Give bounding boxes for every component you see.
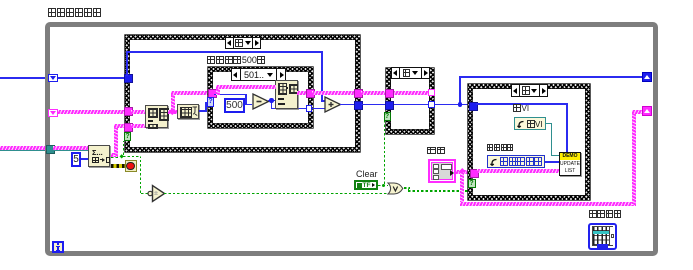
wire: pink+teal from entry tunnel to sigma VI xyxy=(53,146,88,150)
numeric constant 500 xyxy=(224,98,245,113)
tunnel: pink lower on case1 left border xyxy=(124,123,133,132)
wire: pink cluster-array entering loop at left xyxy=(0,146,46,150)
tunnel: blue case2b left (filled) xyxy=(385,101,394,110)
listbox tiny label xyxy=(597,244,608,249)
wire: blue 5 to sigma xyxy=(81,158,88,160)
wire: blue inside case2 from ? to subtract xyxy=(214,94,247,96)
wire: pink inside case2b xyxy=(392,91,428,95)
wire: olive error from sigma to stop icon xyxy=(111,164,125,168)
label: 报文显示 (bottom right) xyxy=(589,210,621,218)
control terminal: 报文 cluster xyxy=(428,159,456,183)
label: 报文显示 (case3) xyxy=(487,144,513,151)
node: array size icon B xyxy=(177,104,199,119)
wire: blue numeric into loop from left edge xyxy=(0,77,48,79)
junction: green dot xyxy=(382,184,386,188)
tunnel: pink upper on case1 left border xyxy=(124,107,133,116)
teal row inside listbox xyxy=(593,231,609,234)
wire: green dashed stub into NOT xyxy=(141,193,149,194)
wire: blue inside case2b xyxy=(392,104,428,106)
junction: green diamond xyxy=(119,154,124,159)
wire: blue inside case1 up and across top xyxy=(126,52,128,76)
case1 selector label 假 xyxy=(225,37,261,49)
shift register left blue (down arrow) xyxy=(48,74,58,82)
shift register right blue (up arrow) xyxy=(642,72,652,82)
tunnel: blue on case1 left border xyxy=(124,74,133,83)
wire: pink tunnel1 to icon A upper input xyxy=(131,110,145,114)
tunnel: blue on case1 right border xyxy=(354,101,364,110)
case2b selector label 假 xyxy=(391,67,430,79)
wire: pink icon A out to icon B with branch up to inner case xyxy=(168,110,177,114)
wire: pink case2 to case1 right tunnel xyxy=(312,91,354,95)
iteration terminal i xyxy=(52,241,64,253)
case structure 2 border (inner 501.. case) xyxy=(208,67,313,128)
wire: blue 500 to subtract xyxy=(245,104,252,106)
label: Clear xyxy=(356,169,378,179)
listbox scrollbar column xyxy=(609,227,614,245)
wire: pink down, along bottom, up to right SR xyxy=(460,172,464,204)
wire: pink sigma out to lower tunnel (up-over) xyxy=(111,153,118,157)
tunnel: teal input tunnel on loop left border xyxy=(46,145,55,154)
node: delete from array icon C xyxy=(275,80,298,109)
label: loop title 报文刷新模块 xyxy=(48,8,101,17)
node: NOT (triangle with input bubble) xyxy=(147,184,167,203)
VI reference constant 本VI xyxy=(514,117,546,130)
wire: blue array size to ? selector xyxy=(199,110,206,112)
tunnel: pink case3 left (filled) xyxy=(470,169,480,179)
node: subtract xyxy=(252,93,270,110)
tunnel: pink case2b left (filled) xyxy=(385,89,394,98)
wire: blue case2 to add node xyxy=(312,108,326,110)
wire: green dashed OR out to case3 ? xyxy=(404,187,410,188)
case1 selector terminal ? (green) xyxy=(124,132,131,141)
control reference: 多列列表框 xyxy=(487,155,545,168)
wire: green dashed long run to OR gate xyxy=(164,193,387,194)
wire: pink case2 tunnel to icon C (up and over) xyxy=(216,85,220,95)
wire: green dashed right then down to NOT node xyxy=(123,156,141,157)
wire: blue add out to case1 right tunnel xyxy=(340,104,354,106)
wire: teal string under pink entry wire xyxy=(0,150,46,152)
case structure 1 border (outer 假 case) xyxy=(125,35,360,152)
tunnel: pink on case2 right border (filled) xyxy=(306,89,315,98)
boolean stop (red round button) xyxy=(125,160,137,172)
case3 selector terminal ? (green) xyxy=(468,179,476,188)
wire: green dashed from case2b ? down to OR junction xyxy=(384,121,385,184)
wire: pink tunnel to DEMO xyxy=(477,169,559,173)
shift register left pink (down arrow) xyxy=(48,109,58,117)
junction: blue dot on wire xyxy=(458,102,462,106)
label: 最多保存500帧 above inner case xyxy=(207,55,265,65)
wire: blue top run to right SR xyxy=(459,76,642,78)
while loop border xyxy=(45,22,658,256)
wire: green dashed up to case1 ? xyxy=(123,141,124,155)
junction: pink diamond after icon A xyxy=(169,108,175,114)
boolean terminal TF (Clear) xyxy=(354,180,378,190)
tunnel: blue case2b right (hollow) xyxy=(428,101,435,108)
wire: blue inside case3 to DEMO top xyxy=(476,103,568,105)
array icon A (build/replace array) xyxy=(145,105,168,128)
case3 selector label 真 xyxy=(511,84,548,97)
wire: blue case2b to case3 with junction to top SR run xyxy=(434,104,470,106)
tunnel: pink on case2 left border xyxy=(208,89,217,98)
junction: pink diamond at 报文 xyxy=(459,168,465,174)
wire: pink from left pink SR to case1 tunnel xyxy=(58,110,124,114)
wire: pink tunnel2 to icon A lower input xyxy=(131,124,145,128)
wire: blue case1 to case2b xyxy=(361,104,386,106)
wire: blue from left SR to case1 tunnel xyxy=(58,77,124,79)
wire: teal 本VI ref to DEMO xyxy=(546,123,552,125)
wire: blue ref to DEMO xyxy=(545,161,559,163)
case structure 3 border (真 case) xyxy=(468,84,590,200)
tunnel: pink on case1 right border xyxy=(354,89,364,98)
junction: blue dot after subtract xyxy=(269,98,273,102)
shift register right pink (up arrow) xyxy=(642,106,652,116)
tunnel: pink case2b right (hollow) xyxy=(428,89,435,96)
wire: green dashed TF to OR xyxy=(378,185,388,186)
wire: pink icon C out to right tunnel xyxy=(297,91,306,95)
subVI: DEMO UPDATE LIST xyxy=(559,152,581,176)
numeric constant 5 xyxy=(71,152,81,167)
wire: blue subtract out, branch to icon C and tunnel xyxy=(268,100,275,102)
case2b selector terminal ? (green) xyxy=(384,112,391,121)
subVI sigma (parse frame VI) xyxy=(88,145,110,167)
wire: pink 报文 to case3 tunnel xyxy=(456,170,470,174)
tunnel: blue on case2 right border (hollow) xyxy=(306,105,313,112)
case2 selector label 501.. xyxy=(231,68,286,81)
indicator terminal: multicolumn listbox 报文显示 xyxy=(588,223,617,250)
case2 selector terminal ? (blue) xyxy=(207,97,214,107)
case structure 2b border (small 假 case) xyxy=(386,68,434,134)
node: add xyxy=(324,96,342,113)
tunnel: blue case3 left (filled) xyxy=(469,102,478,111)
wire: pink case1 to case2b xyxy=(361,91,386,95)
label: 本VI xyxy=(513,104,529,113)
label: 报文 xyxy=(427,147,445,154)
wire: green dashed sigma boolean out xyxy=(111,157,120,158)
node: OR gate xyxy=(387,182,404,195)
